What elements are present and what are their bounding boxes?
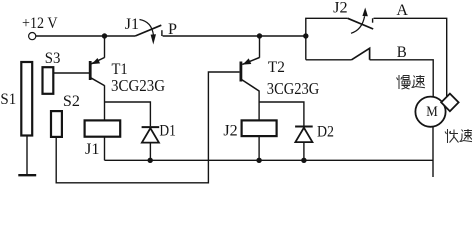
switch J2 motion arrow bbox=[351, 16, 365, 33]
ground bbox=[18, 174, 36, 176]
wire J2 coil bottom bbox=[258, 136, 260, 160]
svg-text:P: P bbox=[168, 21, 177, 38]
motor M bbox=[415, 97, 445, 127]
node T2 emitter junction bbox=[257, 33, 262, 38]
probe S3 bbox=[43, 67, 54, 94]
node T1 emitter junction bbox=[102, 33, 107, 38]
label 慢速 (slow) bbox=[397, 75, 426, 89]
svg-text:S1: S1 bbox=[0, 91, 16, 108]
wire S1 to ground bbox=[26, 136, 28, 174]
node D1-rail bbox=[148, 158, 153, 163]
wire J1 coil bottom bbox=[104, 137, 106, 161]
wire J2 riser bbox=[306, 18, 348, 60]
switch J2 fixed contact A bbox=[372, 18, 374, 22]
svg-text:3CG23G: 3CG23G bbox=[111, 76, 165, 95]
wire top rail left bbox=[36, 35, 135, 37]
terminal +12V bbox=[29, 33, 36, 40]
wire bottom rail bbox=[105, 159, 434, 161]
svg-text:J1: J1 bbox=[85, 141, 100, 158]
wire B to motor bbox=[370, 60, 434, 97]
switch J2 closed contact B bbox=[352, 48, 370, 60]
motor brush diamond bbox=[441, 94, 458, 112]
label 快速 (fast) bbox=[445, 129, 472, 143]
wire A to motor diamond bbox=[374, 18, 447, 96]
transistor T2 bbox=[241, 36, 260, 120]
wire collector branch to D1 bbox=[105, 102, 151, 126]
switch J1 blade bbox=[135, 25, 161, 36]
svg-text:S3: S3 bbox=[45, 50, 61, 67]
svg-text:J2: J2 bbox=[333, 0, 347, 17]
svg-text:3CG23G: 3CG23G bbox=[267, 79, 320, 98]
relay coil J1 bbox=[85, 120, 121, 136]
switch J1 motion arrow bbox=[140, 20, 154, 35]
node D2-rail bbox=[301, 158, 306, 163]
probe S2 bbox=[51, 111, 62, 137]
svg-text:S2: S2 bbox=[63, 93, 80, 110]
svg-text:D2: D2 bbox=[317, 124, 334, 141]
wire collector branch to D2 bbox=[259, 102, 304, 126]
relay coil J2 bbox=[242, 120, 277, 136]
svg-text:B: B bbox=[397, 44, 407, 61]
svg-text:J2: J2 bbox=[223, 123, 237, 140]
svg-text:M: M bbox=[426, 104, 438, 120]
svg-text:T2: T2 bbox=[268, 59, 285, 76]
switch J1 fixed contact bbox=[161, 30, 163, 36]
wire T1 base bbox=[54, 72, 89, 74]
wire J2 B branch bbox=[306, 59, 352, 61]
wire S2 to T2 base (lower rail) bbox=[56, 72, 239, 183]
svg-text:D1: D1 bbox=[159, 123, 176, 140]
probe S1 bbox=[21, 62, 32, 136]
svg-text:+12 V: +12 V bbox=[22, 15, 58, 32]
wire top rail middle bbox=[163, 35, 306, 37]
node J2 pole junction bbox=[303, 33, 308, 38]
svg-text:A: A bbox=[396, 2, 408, 19]
switch J2 blade A bbox=[348, 18, 374, 29]
node J2coil-rail bbox=[256, 158, 261, 163]
diode D2 bbox=[295, 127, 313, 161]
transistor T1 bbox=[90, 36, 104, 120]
wire motor bottom bbox=[432, 126, 434, 177]
diode D1 bbox=[142, 127, 160, 160]
svg-text:J1: J1 bbox=[125, 16, 139, 33]
